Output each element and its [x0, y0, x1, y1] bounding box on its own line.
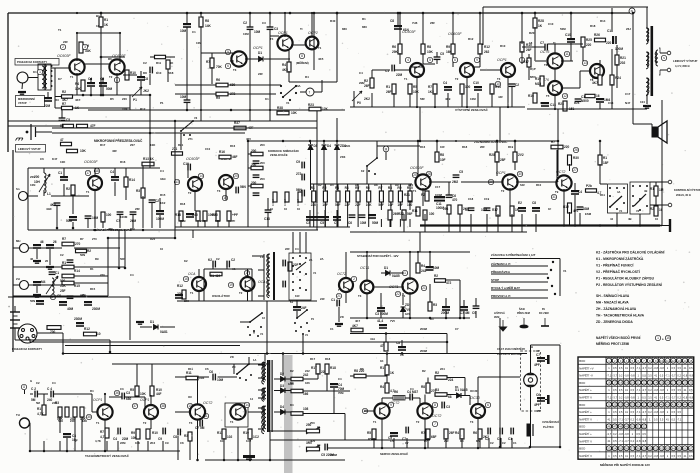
- wire: [459, 214, 461, 232]
- node 14: [244, 402, 249, 407]
- svg-text:0,2: 0,2: [648, 388, 652, 392]
- svg-text:100: 100: [465, 85, 471, 89]
- node 15: [665, 335, 670, 340]
- svg-text:R10: R10: [156, 71, 162, 75]
- resistor R21b: [408, 191, 412, 201]
- svg-text:10M: 10M: [217, 378, 224, 382]
- svg-text:1K: 1K: [538, 24, 543, 28]
- svg-text:5: 5: [429, 58, 431, 62]
- svg-text:R4: R4: [380, 385, 384, 389]
- electrolytic: [442, 306, 450, 311]
- svg-text:R12: R12: [177, 284, 183, 288]
- svg-text:N47: N47: [625, 101, 631, 105]
- svg-text:PŘES ZEM: PŘES ZEM: [517, 312, 530, 315]
- wire: [599, 65, 601, 75]
- legend contact: [547, 277, 549, 279]
- wire: [521, 214, 523, 232]
- wire rec bottom rail: [350, 231, 527, 233]
- electrolytic C3b: [377, 307, 385, 312]
- coil L1: [44, 173, 46, 193]
- capacitor C3: [267, 27, 274, 29]
- value label: [310, 421, 315, 425]
- value label: [435, 185, 441, 189]
- svg-text:D8: D8: [143, 71, 147, 75]
- wire: [570, 13, 572, 38]
- svg-text:C17: C17: [625, 92, 631, 96]
- svg-text:10M: 10M: [180, 95, 187, 99]
- svg-text:1K: 1K: [104, 23, 109, 27]
- wire: [269, 110, 271, 121]
- wire: [200, 26, 202, 110]
- value label: [424, 439, 428, 443]
- wire: [62, 333, 64, 354]
- value label: [75, 82, 79, 86]
- resistor R41: [203, 211, 207, 221]
- value label: [130, 273, 134, 277]
- node 6: [452, 57, 457, 62]
- resistor EQ1: [312, 191, 316, 202]
- svg-text:4K7: 4K7: [75, 98, 81, 102]
- value label: [386, 85, 390, 89]
- wire: [264, 354, 266, 362]
- switch contact: [374, 173, 376, 175]
- svg-text:4PF: 4PF: [534, 363, 540, 367]
- svg-text:18: 18: [95, 169, 99, 173]
- svg-text:56N: 56N: [80, 253, 85, 257]
- wire: [267, 198, 269, 210]
- value label: [626, 27, 631, 31]
- svg-text:-3,7: -3,7: [613, 373, 618, 377]
- svg-text:9: 9: [476, 58, 478, 62]
- wire: [100, 26, 102, 57]
- wire: [409, 202, 411, 210]
- value label: [195, 426, 205, 430]
- wire: [599, 164, 601, 184]
- svg-text:47: 47: [60, 138, 64, 142]
- switch contact K1: [292, 257, 294, 259]
- value label: [536, 183, 542, 187]
- value label: [232, 155, 238, 159]
- wire: [381, 398, 383, 404]
- value label: [57, 417, 64, 421]
- wire: [371, 70, 373, 78]
- svg-text:C8: C8: [180, 441, 184, 445]
- motor dashed box: [521, 351, 541, 411]
- transistor T16 OC72: [417, 403, 432, 418]
- wire: [380, 293, 382, 307]
- value label: [563, 205, 569, 209]
- svg-text:K2: K2: [361, 169, 365, 173]
- value label: [209, 370, 213, 374]
- svg-text:31: 31: [552, 195, 556, 199]
- svg-text:MH: MH: [16, 239, 20, 243]
- node 2: [351, 276, 356, 281]
- value label: [433, 303, 437, 307]
- svg-text:0,5: 0,5: [631, 366, 635, 370]
- wire: [368, 184, 370, 191]
- wire: [247, 269, 249, 278]
- value label: [470, 97, 476, 101]
- svg-text:10: 10: [297, 207, 301, 211]
- wire: [336, 210, 338, 216]
- label T8: [590, 78, 594, 82]
- wire: [125, 168, 127, 177]
- junction: [366, 251, 368, 253]
- value label: [390, 439, 394, 443]
- value label: [330, 366, 336, 370]
- value label: [62, 98, 68, 102]
- value label: [483, 435, 489, 439]
- wire: [43, 441, 45, 451]
- transformer Tr1: [38, 64, 51, 90]
- wire: [393, 438, 395, 448]
- junction: [419, 140, 422, 143]
- svg-text:10F: 10F: [440, 158, 446, 162]
- value label: [55, 401, 59, 405]
- svg-text:10N: 10N: [30, 183, 35, 187]
- value label: [30, 299, 35, 303]
- coil Tr1 primary: [42, 66, 44, 88]
- wire: [54, 68, 56, 108]
- legend disc ground: [520, 318, 528, 328]
- wire rail y440: [270, 439, 430, 441]
- svg-text:10M: 10M: [481, 208, 488, 212]
- resistor R2: [370, 78, 374, 88]
- svg-text:ZÁSUVKA S PŘEPÍNAČEM 1 A/T: ZÁSUVKA S PŘEPÍNAČEM 1 A/T: [491, 252, 536, 257]
- svg-text:-7,1: -7,1: [618, 417, 623, 421]
- capacitor: [178, 429, 180, 436]
- svg-text:70K: 70K: [216, 65, 223, 69]
- svg-text:0,2: 0,2: [631, 439, 635, 443]
- wire: [74, 275, 108, 277]
- resistor R16: [219, 155, 231, 159]
- svg-text:D4: D4: [327, 144, 331, 148]
- wire rail: [8, 120, 317, 122]
- wire tach ground rail: [30, 450, 180, 452]
- svg-text:R20: R20: [529, 31, 535, 35]
- transistor T14: [230, 404, 245, 419]
- wire: [186, 13, 188, 23]
- node 18: [94, 168, 99, 173]
- label T3: [233, 68, 237, 72]
- resistor R9: [79, 42, 83, 53]
- label box LINKOVY VSTUP: [16, 145, 46, 153]
- label legend V2 - PŘEPÍNA: [596, 269, 640, 274]
- svg-text:1: 1: [39, 70, 41, 74]
- svg-text:R7: R7: [62, 237, 66, 241]
- resistor R2: [62, 95, 73, 98]
- node 17: [85, 170, 90, 175]
- value label: [441, 311, 449, 315]
- coil Tr2 primary lower: [647, 78, 649, 93]
- transformer pin: [51, 70, 53, 72]
- ground: [33, 261, 41, 263]
- wire: [399, 53, 401, 64]
- connector K2 DIN: [18, 324, 37, 343]
- junction: [237, 459, 240, 462]
- wire: [475, 311, 477, 318]
- value label: [57, 294, 61, 298]
- value label: [427, 50, 434, 54]
- resistor EQ6: [367, 191, 371, 202]
- resistor R27: [585, 94, 595, 97]
- svg-text:C3: C3: [446, 405, 450, 409]
- transistor T15 OC72: [374, 403, 389, 418]
- switch contact: [302, 333, 304, 335]
- capacitor C2b: [150, 67, 152, 74]
- value label: [156, 71, 162, 75]
- value label: [335, 203, 341, 207]
- svg-text:22F: 22F: [258, 72, 263, 76]
- switch contact K1: [292, 265, 294, 267]
- wire: [422, 13, 424, 44]
- wire: [371, 93, 373, 107]
- resistor R1d: [654, 186, 658, 196]
- wire osc box bottom: [177, 300, 317, 302]
- label leg1: [494, 312, 505, 315]
- wire mic stage bottom: [73, 107, 131, 109]
- label C6C7 2: [497, 353, 522, 356]
- value label: [92, 216, 99, 220]
- resistor: [65, 407, 69, 417]
- svg-text:C3: C3: [262, 21, 266, 25]
- svg-text:272: 272: [296, 172, 302, 176]
- svg-text:-0,8: -0,8: [683, 395, 688, 399]
- svg-text:R4: R4: [75, 82, 79, 86]
- svg-text:3,5: 3,5: [648, 373, 652, 377]
- wire: [270, 35, 279, 37]
- value label: [393, 212, 399, 216]
- svg-text:10K: 10K: [140, 392, 147, 396]
- resistor R3: [63, 124, 74, 127]
- value label: [548, 207, 552, 211]
- wire: [478, 376, 500, 378]
- wire: [13, 295, 108, 297]
- svg-text:VÝSTUPNÍ ZESILOVAČ: VÝSTUPNÍ ZESILOVAČ: [455, 107, 489, 112]
- wire: [104, 419, 106, 451]
- wire winding tap: [258, 397, 264, 399]
- coil Tr2 bold 1: [646, 28, 648, 44]
- svg-text:D2: D2: [290, 369, 294, 373]
- junction: [196, 459, 199, 462]
- electrolytic: [36, 300, 44, 305]
- wire: [177, 436, 179, 460]
- junction: [313, 12, 316, 15]
- junction: [422, 12, 425, 15]
- wire right rail: [661, 100, 663, 226]
- wire: [403, 219, 405, 227]
- svg-text:D1: D1: [150, 320, 154, 324]
- label legend STOP: [491, 278, 499, 282]
- wire: [218, 376, 238, 378]
- svg-text:4B: 4B: [644, 189, 647, 193]
- resistor R3d: [188, 432, 192, 441]
- svg-text:C10: C10: [565, 33, 571, 37]
- wire legend top: [490, 258, 560, 260]
- wire: [249, 29, 251, 58]
- svg-text:R1: R1: [603, 156, 607, 160]
- value label: [160, 201, 166, 205]
- svg-text:0A5: 0A5: [405, 313, 410, 316]
- value label: [320, 297, 325, 301]
- svg-text:8: 8: [301, 54, 303, 58]
- value label: [395, 183, 399, 187]
- svg-text:R40: R40: [330, 19, 336, 23]
- value label: [295, 247, 299, 251]
- junction top bus: [452, 12, 454, 14]
- svg-text:R3: R3: [335, 186, 339, 190]
- junction top bus: [521, 12, 523, 14]
- wire: [160, 326, 175, 328]
- svg-text:0,5: 0,5: [613, 388, 617, 392]
- value label: [608, 101, 614, 105]
- svg-text:100: 100: [429, 212, 435, 216]
- svg-text:100M: 100M: [296, 200, 300, 207]
- value label: [156, 61, 162, 65]
- transistor T2 osc: [241, 277, 255, 291]
- svg-text:4K7: 4K7: [352, 324, 358, 328]
- svg-text:C8: C8: [390, 19, 394, 23]
- svg-text:R6: R6: [392, 45, 396, 49]
- value label: [122, 107, 127, 111]
- value label: [377, 319, 383, 323]
- junction: [100, 12, 103, 15]
- wire: [228, 220, 230, 227]
- resistor R3c: [428, 302, 432, 311]
- svg-text:0,5: 0,5: [613, 366, 617, 370]
- svg-text:C13: C13: [264, 217, 270, 221]
- svg-text:242: 242: [305, 369, 310, 373]
- value label: [500, 158, 506, 162]
- label MERENO PRI NAPETI: [600, 462, 650, 467]
- node 7: [519, 57, 524, 62]
- svg-text:C3: C3: [120, 387, 124, 391]
- value label: [66, 187, 70, 191]
- svg-text:7: 7: [434, 422, 436, 426]
- value label: [620, 56, 626, 60]
- capacitor C7: [545, 44, 547, 51]
- value label: [534, 363, 540, 367]
- svg-text:41A: 41A: [370, 337, 375, 341]
- label 0A85: [288, 383, 294, 386]
- wire: [53, 393, 92, 395]
- resistor R10: [520, 42, 524, 52]
- wire: [274, 378, 276, 380]
- wire: [391, 272, 404, 274]
- svg-text:OC603F: OC603F: [410, 166, 424, 170]
- label battery plus: [8, 305, 10, 309]
- svg-text:50M: 50M: [66, 219, 73, 223]
- value label: [362, 25, 367, 29]
- svg-text:R2: R2: [322, 186, 326, 190]
- value label: [184, 299, 189, 303]
- value label: [330, 183, 334, 187]
- value label: [216, 65, 223, 69]
- svg-text:T3: T3: [233, 68, 237, 72]
- value label: [150, 237, 156, 241]
- wire: [28, 195, 39, 197]
- svg-text:C2: C2: [243, 21, 247, 25]
- wire: [424, 395, 426, 405]
- wire: [427, 378, 429, 384]
- value label: [431, 389, 437, 393]
- svg-text:R6: R6: [476, 439, 480, 443]
- resistor R11b: [186, 376, 198, 380]
- wire: [521, 51, 523, 64]
- svg-text:D1: D1: [258, 51, 262, 55]
- capacitor korekce 0: [253, 161, 260, 163]
- svg-text:C4: C4: [110, 170, 114, 174]
- capacitor C5c: [325, 444, 327, 451]
- transistor T3 OCP1: [501, 63, 515, 77]
- svg-text:R6: R6: [355, 183, 359, 187]
- value label: [615, 47, 623, 51]
- wire: [167, 69, 169, 82]
- value label: [75, 106, 80, 110]
- electrolytic C8c: [398, 346, 406, 351]
- svg-text:4,4 V; 800 Ω: 4,4 V; 800 Ω: [675, 64, 690, 68]
- svg-text:R7: R7: [206, 60, 210, 64]
- svg-text:230M: 230M: [92, 307, 100, 311]
- wire: [129, 297, 131, 340]
- label VYSTUPNI ZESILOVAC: [455, 107, 489, 112]
- value label: [33, 70, 37, 74]
- value label: [205, 367, 209, 371]
- svg-text:BOD: BOD: [579, 447, 585, 451]
- label rot: [283, 200, 287, 207]
- value label: [62, 237, 66, 241]
- coil L2: [52, 278, 54, 294]
- switch contact: [180, 130, 182, 132]
- svg-text:22K: 22K: [184, 299, 189, 303]
- electrolytic: [33, 244, 41, 249]
- junction top bus: [311, 12, 313, 14]
- svg-text:T1: T1: [190, 291, 194, 295]
- svg-text:K47: K47: [52, 157, 58, 161]
- svg-text:R10: R10: [408, 183, 414, 187]
- svg-text:C2: C2: [515, 83, 519, 87]
- svg-text:ZD: ZD: [405, 303, 410, 307]
- value label: [120, 387, 124, 391]
- svg-text:0,5: 0,5: [671, 388, 675, 392]
- capacitor C3d: [122, 393, 124, 400]
- value label: [258, 51, 262, 55]
- svg-text:C14: C14: [608, 101, 614, 105]
- switch contact V2: [632, 195, 634, 197]
- value label: [536, 349, 540, 353]
- svg-text:LINKOVÝ VSTUP: LINKOVÝ VSTUP: [18, 146, 41, 151]
- svg-text:T2: T2: [143, 421, 147, 425]
- value label: [420, 349, 428, 353]
- value label: [60, 284, 67, 288]
- wire legend underline: [491, 281, 548, 283]
- battery B1: [10, 312, 20, 328]
- svg-text:NAPĚTÍ -V: NAPĚTÍ -V: [579, 373, 593, 378]
- value label: [158, 437, 162, 441]
- resistor R5: [216, 92, 228, 96]
- wire rail y364: [112, 363, 270, 365]
- wire: [102, 79, 104, 82]
- wire: [274, 378, 281, 380]
- value label: [405, 303, 410, 307]
- value label: [210, 274, 221, 278]
- wire winding tap: [258, 389, 264, 391]
- switch contact K1: [305, 289, 307, 291]
- value label: [407, 203, 413, 207]
- wire: [347, 184, 349, 191]
- capacitor C2b: [149, 200, 156, 202]
- wire: [13, 284, 20, 286]
